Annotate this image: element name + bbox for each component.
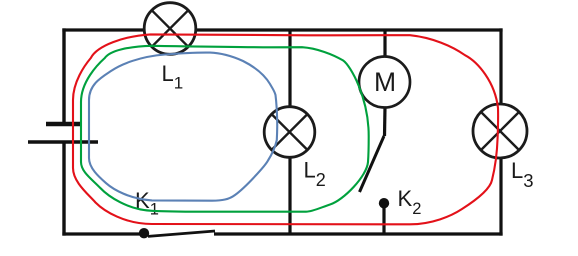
wire branch L2 lower — [288, 158, 291, 235]
switch K2 contact dot — [379, 198, 389, 208]
blue loop (battery - L1 - L2 branch) — [89, 53, 277, 201]
wire top edge left segment — [62, 28, 144, 31]
wire branch L2 upper — [288, 30, 291, 107]
wire branch M upper — [383, 30, 386, 57]
wire branch M to switch pivot — [383, 107, 387, 136]
wire right edge upper — [499, 28, 502, 104]
battery long plate (positive) — [28, 140, 98, 143]
lamp L3 — [473, 104, 527, 158]
svg-text:M: M — [374, 67, 396, 97]
wire right edge lower — [499, 158, 502, 236]
lamp L2 — [264, 107, 315, 158]
switch K1 contact dot — [139, 228, 149, 238]
switch K1 blade — [148, 231, 215, 236]
red loop (battery - L1 - L3) — [73, 34, 498, 224]
motor M — [359, 57, 410, 108]
wire bottom edge right segment — [214, 232, 503, 235]
wire left edge upper (to battery) — [62, 28, 65, 124]
lamp L1 — [144, 3, 196, 55]
wire top edge right segment — [195, 28, 502, 31]
battery short plate (negative) — [46, 122, 80, 126]
wire left edge lower (battery to bottom) — [62, 142, 65, 236]
wire switch K2 to bottom edge — [382, 207, 385, 234]
wire bottom edge left segment — [62, 232, 144, 235]
switch K2 blade (open) — [360, 136, 385, 192]
green loop (battery - L1 - M branch) — [81, 46, 369, 212]
